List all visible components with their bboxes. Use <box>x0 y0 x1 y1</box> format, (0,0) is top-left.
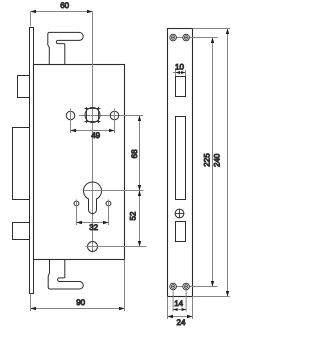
top hook bolt <box>48 32 83 64</box>
bottom screws center line <box>170 286 218 288</box>
case fixing screw (cross circle) <box>86 242 147 252</box>
top screw left <box>170 34 177 41</box>
dim 32 <box>77 221 109 232</box>
follower horizontal center line <box>79 115 143 117</box>
svg-text:24: 24 <box>177 318 186 327</box>
follower right fixing hole <box>110 109 119 134</box>
follower left fixing hole <box>66 109 75 134</box>
svg-text:10: 10 <box>175 63 184 72</box>
dim 225 <box>203 38 215 287</box>
lock case body <box>34 65 125 260</box>
svg-text:60: 60 <box>60 1 69 10</box>
svg-text:68: 68 <box>130 149 139 158</box>
main deadbolt protrusion P2 <box>13 128 30 200</box>
svg-text:49: 49 <box>91 131 100 140</box>
svg-text:225: 225 <box>203 153 212 167</box>
hook slot cutout <box>176 117 186 200</box>
svg-text:14: 14 <box>174 299 183 308</box>
latch bolt protrusion P1 <box>18 76 30 98</box>
faceplate cross screw <box>175 209 184 218</box>
svg-text:90: 90 <box>76 298 85 307</box>
dim 240 <box>193 29 231 297</box>
dim 10 <box>173 63 186 77</box>
faceplate front view <box>168 29 193 297</box>
bottom screw left <box>170 283 177 290</box>
dim 68 <box>130 116 141 191</box>
latch cutout <box>176 77 186 97</box>
bottom hook bolt <box>48 260 83 290</box>
dim 24 <box>168 297 193 328</box>
bottom screw right <box>183 283 190 290</box>
dim 49 <box>71 129 115 140</box>
lower bolt protrusion P3 <box>13 223 30 240</box>
dim 60 <box>31 1 93 27</box>
dim 14 <box>173 290 186 312</box>
cylinder right fixing hole <box>106 200 111 226</box>
dim 52 <box>129 191 142 247</box>
svg-text:52: 52 <box>129 211 138 220</box>
lower cutout <box>176 222 186 242</box>
euro cylinder profile hole <box>84 182 144 214</box>
follower square spindle hole <box>85 107 101 123</box>
dim 90 <box>31 260 125 312</box>
cylinder left fixing hole <box>74 200 79 226</box>
top screw right <box>183 34 190 41</box>
svg-text:32: 32 <box>89 223 98 232</box>
faceplate edge strip (left view) <box>30 28 34 294</box>
main vertical center line <box>92 12 94 253</box>
top screws center line <box>170 37 218 39</box>
svg-text:240: 240 <box>213 153 222 167</box>
